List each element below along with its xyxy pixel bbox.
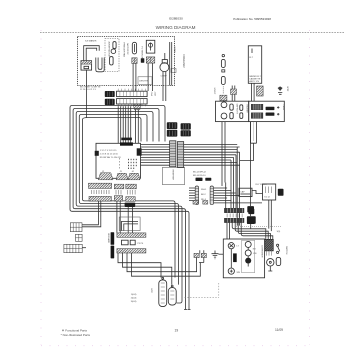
dispenser box bbox=[223, 239, 264, 278]
svg-text:COND: COND bbox=[173, 47, 175, 54]
relay blob bbox=[278, 189, 284, 196]
hatched bar A bbox=[117, 233, 146, 237]
board pin grid bbox=[128, 159, 137, 169]
edge connector half A bbox=[170, 141, 176, 167]
staircase wire 3 bbox=[127, 253, 197, 272]
connector strip row 2 bbox=[117, 99, 148, 104]
second heater pill bbox=[168, 288, 176, 306]
ladder bar1 blob bbox=[248, 209, 254, 215]
stack2 bar A bbox=[114, 184, 124, 189]
wire U-loop inner bbox=[98, 58, 102, 70]
harness plug a bbox=[194, 253, 199, 257]
dispenser chute symbol bbox=[278, 86, 283, 94]
filter inner mark bbox=[251, 49, 253, 54]
dispenser lower circle bbox=[228, 268, 234, 274]
wires damper down bbox=[148, 63, 153, 91]
main board box bbox=[96, 143, 141, 178]
relay box bbox=[263, 184, 276, 200]
auger motor coil bbox=[110, 57, 114, 65]
heater pill top contact bbox=[162, 277, 164, 279]
small comp row under bar A bbox=[122, 240, 145, 245]
wire (inner parallel) bbox=[86, 48, 97, 61]
heater barrel lower bbox=[251, 113, 263, 119]
stack3 bar A bbox=[126, 184, 137, 189]
staircase wire 1 bbox=[118, 253, 161, 278]
bundle end ticks bbox=[184, 309, 191, 311]
ladder middle pins bbox=[227, 214, 242, 218]
aux pill right bbox=[276, 257, 281, 265]
wire loop 1 (outermost) bbox=[70, 106, 189, 310]
svg-text:FREEZER FAN: FREEZER FAN bbox=[123, 43, 126, 58]
stack1 bar A bbox=[89, 183, 112, 188]
svg-text:ASSY 12V: ASSY 12V bbox=[249, 80, 259, 83]
stack3 blob bbox=[125, 203, 136, 207]
harness junction blob right bbox=[181, 123, 191, 136]
svg-text:3(0-8): 3(0-8) bbox=[131, 301, 137, 303]
wide strip connector bbox=[64, 244, 82, 252]
wires edge connector to right bbox=[184, 144, 240, 165]
svg-text:CAP: CAP bbox=[240, 191, 245, 194]
damper box bbox=[146, 40, 155, 53]
defrost aux pill lower bbox=[240, 113, 243, 119]
water tube connector bbox=[257, 86, 264, 96]
ground symbol left of dispenser bbox=[212, 251, 219, 259]
svg-text:1(0-8): 1(0-8) bbox=[131, 294, 137, 296]
svg-text:ICE: ICE bbox=[253, 253, 257, 255]
board connector trapezoid 1 bbox=[98, 173, 113, 180]
compressor start device box bbox=[162, 60, 167, 64]
stack1 bar B bbox=[89, 196, 111, 201]
svg-text:ICE MAKER: ICE MAKER bbox=[85, 40, 97, 43]
dispenser internal wires bbox=[231, 247, 248, 268]
sub-box blob 1 bbox=[196, 178, 203, 181]
plug label (vertical) bbox=[201, 189, 207, 201]
defrost aux pill upper bbox=[240, 105, 243, 111]
defrost box bbox=[216, 101, 249, 121]
dispenser motor circle (filled) bbox=[245, 258, 251, 264]
svg-text:BR-16 RD-10: BR-16 RD-10 bbox=[193, 175, 206, 177]
dispenser black bar bbox=[233, 253, 237, 262]
auger motor M circle bbox=[111, 49, 116, 54]
svg-text:11/09: 11/09 bbox=[275, 328, 283, 332]
power board sub-box bbox=[163, 167, 185, 184]
bottom note text block bbox=[131, 294, 137, 303]
staircase wire 2 bbox=[123, 253, 172, 285]
plug pill left bbox=[195, 186, 198, 205]
filter housing box bbox=[248, 46, 261, 84]
svg-text:J1-B: J1-B bbox=[154, 92, 156, 97]
dispenser feed straight pair bbox=[227, 223, 230, 239]
wire U-loop bbox=[96, 58, 104, 72]
compressor lead stub bbox=[164, 53, 166, 60]
heater blob upper bbox=[266, 107, 275, 110]
auger motor dashed sub-box bbox=[105, 39, 119, 72]
hatched bar B bbox=[117, 249, 146, 253]
thermistor blob bbox=[141, 58, 145, 62]
svg-text:12 10 8 6 4 2 1 3: 12 10 8 6 4 2 1 3 bbox=[80, 89, 96, 91]
svg-text:CASE: CASE bbox=[282, 105, 285, 111]
drain heater box bbox=[138, 77, 152, 85]
svg-text:HEATER: HEATER bbox=[245, 105, 248, 114]
connector blob upper bbox=[105, 91, 115, 97]
dashed option lines bbox=[185, 283, 220, 297]
paddle wire down bbox=[268, 266, 272, 271]
svg-text:2 4 6 8 10 12 14 16: 2 4 6 8 10 12 14 16 bbox=[100, 154, 119, 156]
dispenser lamp circle bbox=[228, 243, 234, 249]
svg-text:COMP: COMP bbox=[161, 76, 168, 78]
sensor link bbox=[222, 70, 225, 72]
stack2 bar B bbox=[114, 196, 122, 201]
defrost coil upper bbox=[230, 104, 233, 110]
sensor chain dots bbox=[222, 87, 224, 95]
board top bar outer bbox=[121, 138, 132, 141]
board top bar inner bbox=[120, 142, 133, 145]
connector strip row 1 bbox=[117, 91, 148, 96]
wire defrost to bus bbox=[240, 143, 254, 160]
svg-text:* Non-Illustrated Parts: * Non-Illustrated Parts bbox=[61, 333, 91, 337]
svg-text:WH-1: WH-1 bbox=[201, 189, 207, 191]
svg-text:WTR: WTR bbox=[286, 87, 288, 92]
sensor chain connector bbox=[220, 95, 227, 100]
svg-text:2(0-8): 2(0-8) bbox=[131, 297, 137, 299]
wires down to ladder bbox=[231, 155, 236, 209]
stack3 bar B bbox=[126, 197, 135, 202]
svg-text:RLY 12VDC: RLY 12VDC bbox=[256, 184, 268, 186]
freezer section dashed enclosure bbox=[78, 37, 175, 86]
ground stub to dispenser box bbox=[219, 253, 224, 255]
ladder bar 2 bbox=[224, 218, 244, 222]
plug pill right bbox=[210, 186, 213, 205]
compressor wires lower bbox=[163, 86, 166, 102]
connector blob lower bbox=[105, 99, 115, 105]
grid connector bbox=[70, 223, 82, 232]
dispenser feed wire 4 bbox=[241, 223, 273, 240]
wire from icemaker down bbox=[85, 70, 87, 117]
svg-text:1 3 5 7 9 11 13 15: 1 3 5 7 9 11 13 15 bbox=[100, 150, 117, 152]
svg-text:UI BOARD: UI BOARD bbox=[107, 233, 110, 244]
svg-text:RD BK WH YL GN OR: RD BK WH YL GN OR bbox=[100, 157, 121, 159]
svg-text:SW: SW bbox=[237, 272, 240, 274]
wires board to edge connector bbox=[141, 144, 170, 165]
damper connector bbox=[146, 57, 155, 63]
strip row2 pins bbox=[118, 104, 145, 106]
heater blob lower bbox=[266, 113, 275, 116]
dispenser inner partition bbox=[242, 240, 255, 272]
title underline dashed rule bbox=[40, 32, 345, 34]
dispenser feed wire 2 bbox=[235, 223, 268, 240]
routing box above bars bbox=[119, 217, 140, 231]
compressor motor circle bbox=[160, 63, 169, 72]
wire loop 3 bbox=[76, 112, 182, 304]
wires relay down bbox=[269, 200, 272, 231]
ladder bar 1 bbox=[224, 208, 244, 212]
sub-box blob 2 bbox=[205, 178, 211, 181]
wire loop 2 bbox=[73, 109, 185, 310]
micro switch symbol bbox=[277, 244, 280, 253]
freezer fan motor body bbox=[132, 42, 136, 54]
svg-text:Publication No. 5995533938: Publication No. 5995533938 bbox=[233, 17, 271, 21]
icemaker head connector bbox=[81, 61, 92, 70]
second pill top contact bbox=[171, 285, 173, 287]
harness junction blob left bbox=[167, 122, 178, 136]
svg-text:AUGER MOTOR: AUGER MOTOR bbox=[107, 42, 110, 58]
svg-text:19: 19 bbox=[175, 328, 179, 332]
strip row1 pins bbox=[118, 89, 145, 92]
staircase wire 4 bbox=[132, 253, 201, 276]
condenser fan wires bbox=[170, 42, 172, 86]
sensor blob A bbox=[247, 206, 254, 212]
wire loop to icemaker bbox=[84, 46, 100, 62]
svg-text:DRN HTR: DRN HTR bbox=[139, 81, 149, 83]
heater cross mark upper bbox=[277, 106, 279, 108]
board connector trapezoid 2 bbox=[116, 173, 128, 180]
svg-text:MOTOR DC: MOTOR DC bbox=[126, 44, 128, 56]
wires stack3 down bbox=[128, 207, 132, 233]
inline splice b bbox=[203, 201, 208, 205]
paddle circle bbox=[267, 259, 274, 266]
stack2 pins bbox=[116, 190, 121, 195]
svg-text:NO: NO bbox=[253, 249, 257, 251]
heater barrel upper bbox=[251, 104, 263, 110]
wires compressor bbox=[163, 72, 166, 86]
plug wires bbox=[197, 250, 204, 262]
dispenser feed wire 3 bbox=[238, 223, 270, 240]
defrost coil lower bbox=[230, 113, 233, 119]
small connector bbox=[76, 234, 83, 241]
strip drop wires to board bbox=[118, 106, 131, 143]
wires defrost box to plugs bbox=[222, 122, 225, 186]
svg-text:P5 P6: P5 P6 bbox=[138, 243, 145, 245]
svg-text:EI28BS30: EI28BS30 bbox=[169, 16, 183, 20]
stack1 pins bbox=[92, 190, 110, 194]
defrost feed connector bbox=[231, 86, 237, 102]
defrost thermostat circle lower bbox=[221, 113, 227, 119]
heater box bbox=[249, 101, 285, 121]
svg-text:K1 12: K1 12 bbox=[264, 197, 270, 199]
stack3 pins bbox=[128, 190, 136, 195]
svg-text:DEFROST: DEFROST bbox=[236, 104, 238, 115]
board connector trapezoid 3 bbox=[128, 173, 140, 180]
dashed demarcation line bbox=[236, 226, 281, 228]
wire aux to relay bbox=[214, 191, 263, 203]
svg-text:FREEZER: FREEZER bbox=[182, 55, 186, 68]
wires stack1 down-left bbox=[82, 201, 101, 227]
sensor coil upper bbox=[221, 59, 225, 67]
svg-text:INVERTER: INVERTER bbox=[172, 170, 174, 181]
black bar lower bbox=[111, 246, 115, 259]
auger motor cap bbox=[113, 42, 116, 49]
inline splice a bbox=[193, 201, 198, 205]
vertical pair to bottom region bbox=[237, 147, 239, 226]
wire loop 5 (innermost) bbox=[82, 118, 175, 278]
sensor coil lower bbox=[221, 76, 225, 84]
harness trapezoid under strip bbox=[133, 104, 141, 143]
wires stack2 down bbox=[117, 201, 120, 233]
svg-text:24VDC: 24VDC bbox=[213, 88, 215, 95]
defrost thermostat circle upper bbox=[221, 102, 227, 108]
svg-text:HTR: HTR bbox=[150, 289, 152, 294]
sensor chain top contact bbox=[222, 54, 224, 56]
dispenser switch circle 2 bbox=[245, 250, 251, 256]
board right edge connector blob bbox=[137, 148, 142, 155]
wires filter down bbox=[251, 83, 254, 101]
board tick column bbox=[118, 158, 120, 169]
svg-text:1(0): 1(0) bbox=[277, 231, 281, 233]
faint page border dots bbox=[41, 30, 310, 346]
svg-text:FZ SENSOR: FZ SENSOR bbox=[141, 47, 143, 59]
dispenser connector (hatched) bbox=[265, 239, 274, 251]
edge connector half B bbox=[177, 142, 183, 168]
wide strip tail bbox=[82, 247, 86, 249]
dispenser feed wire 1 bbox=[232, 223, 266, 240]
black bar upper bbox=[111, 232, 115, 245]
svg-text:▼ Functional Parts: ▼ Functional Parts bbox=[62, 328, 88, 332]
svg-text:BK-14 WH-12: BK-14 WH-12 bbox=[193, 172, 207, 174]
ladder bar2 blob bbox=[247, 218, 255, 224]
wires out plug right bbox=[214, 183, 241, 209]
svg-text:WIRING DIAGRAM: WIRING DIAGRAM bbox=[156, 25, 196, 30]
dispenser switch circle 1 bbox=[245, 241, 251, 247]
svg-text:DISPENSER: DISPENSER bbox=[260, 246, 262, 259]
sensor blob B bbox=[247, 216, 256, 224]
connector pins below bbox=[267, 251, 272, 256]
harness plug b bbox=[201, 253, 206, 257]
heater cross mark lower bbox=[277, 113, 279, 115]
wire loop 4 bbox=[79, 115, 178, 285]
wires freezer fan down bbox=[133, 64, 136, 92]
freezer fan connector bbox=[132, 58, 137, 64]
aux box left bbox=[239, 188, 252, 196]
water tube heater pill bbox=[159, 280, 167, 307]
wire to sensor blobs bbox=[250, 122, 252, 229]
defrost link wires bbox=[251, 122, 257, 144]
board left edge connector blob bbox=[95, 151, 99, 156]
svg-text:J1-A: J1-A bbox=[150, 92, 153, 97]
svg-text:SWITCH: SWITCH bbox=[285, 246, 287, 255]
right edge junction box bbox=[171, 69, 176, 73]
wires into plug left bbox=[189, 188, 195, 201]
defrost mechanical link (dashed) bbox=[253, 123, 255, 142]
dispenser circle labels bbox=[237, 246, 258, 275]
